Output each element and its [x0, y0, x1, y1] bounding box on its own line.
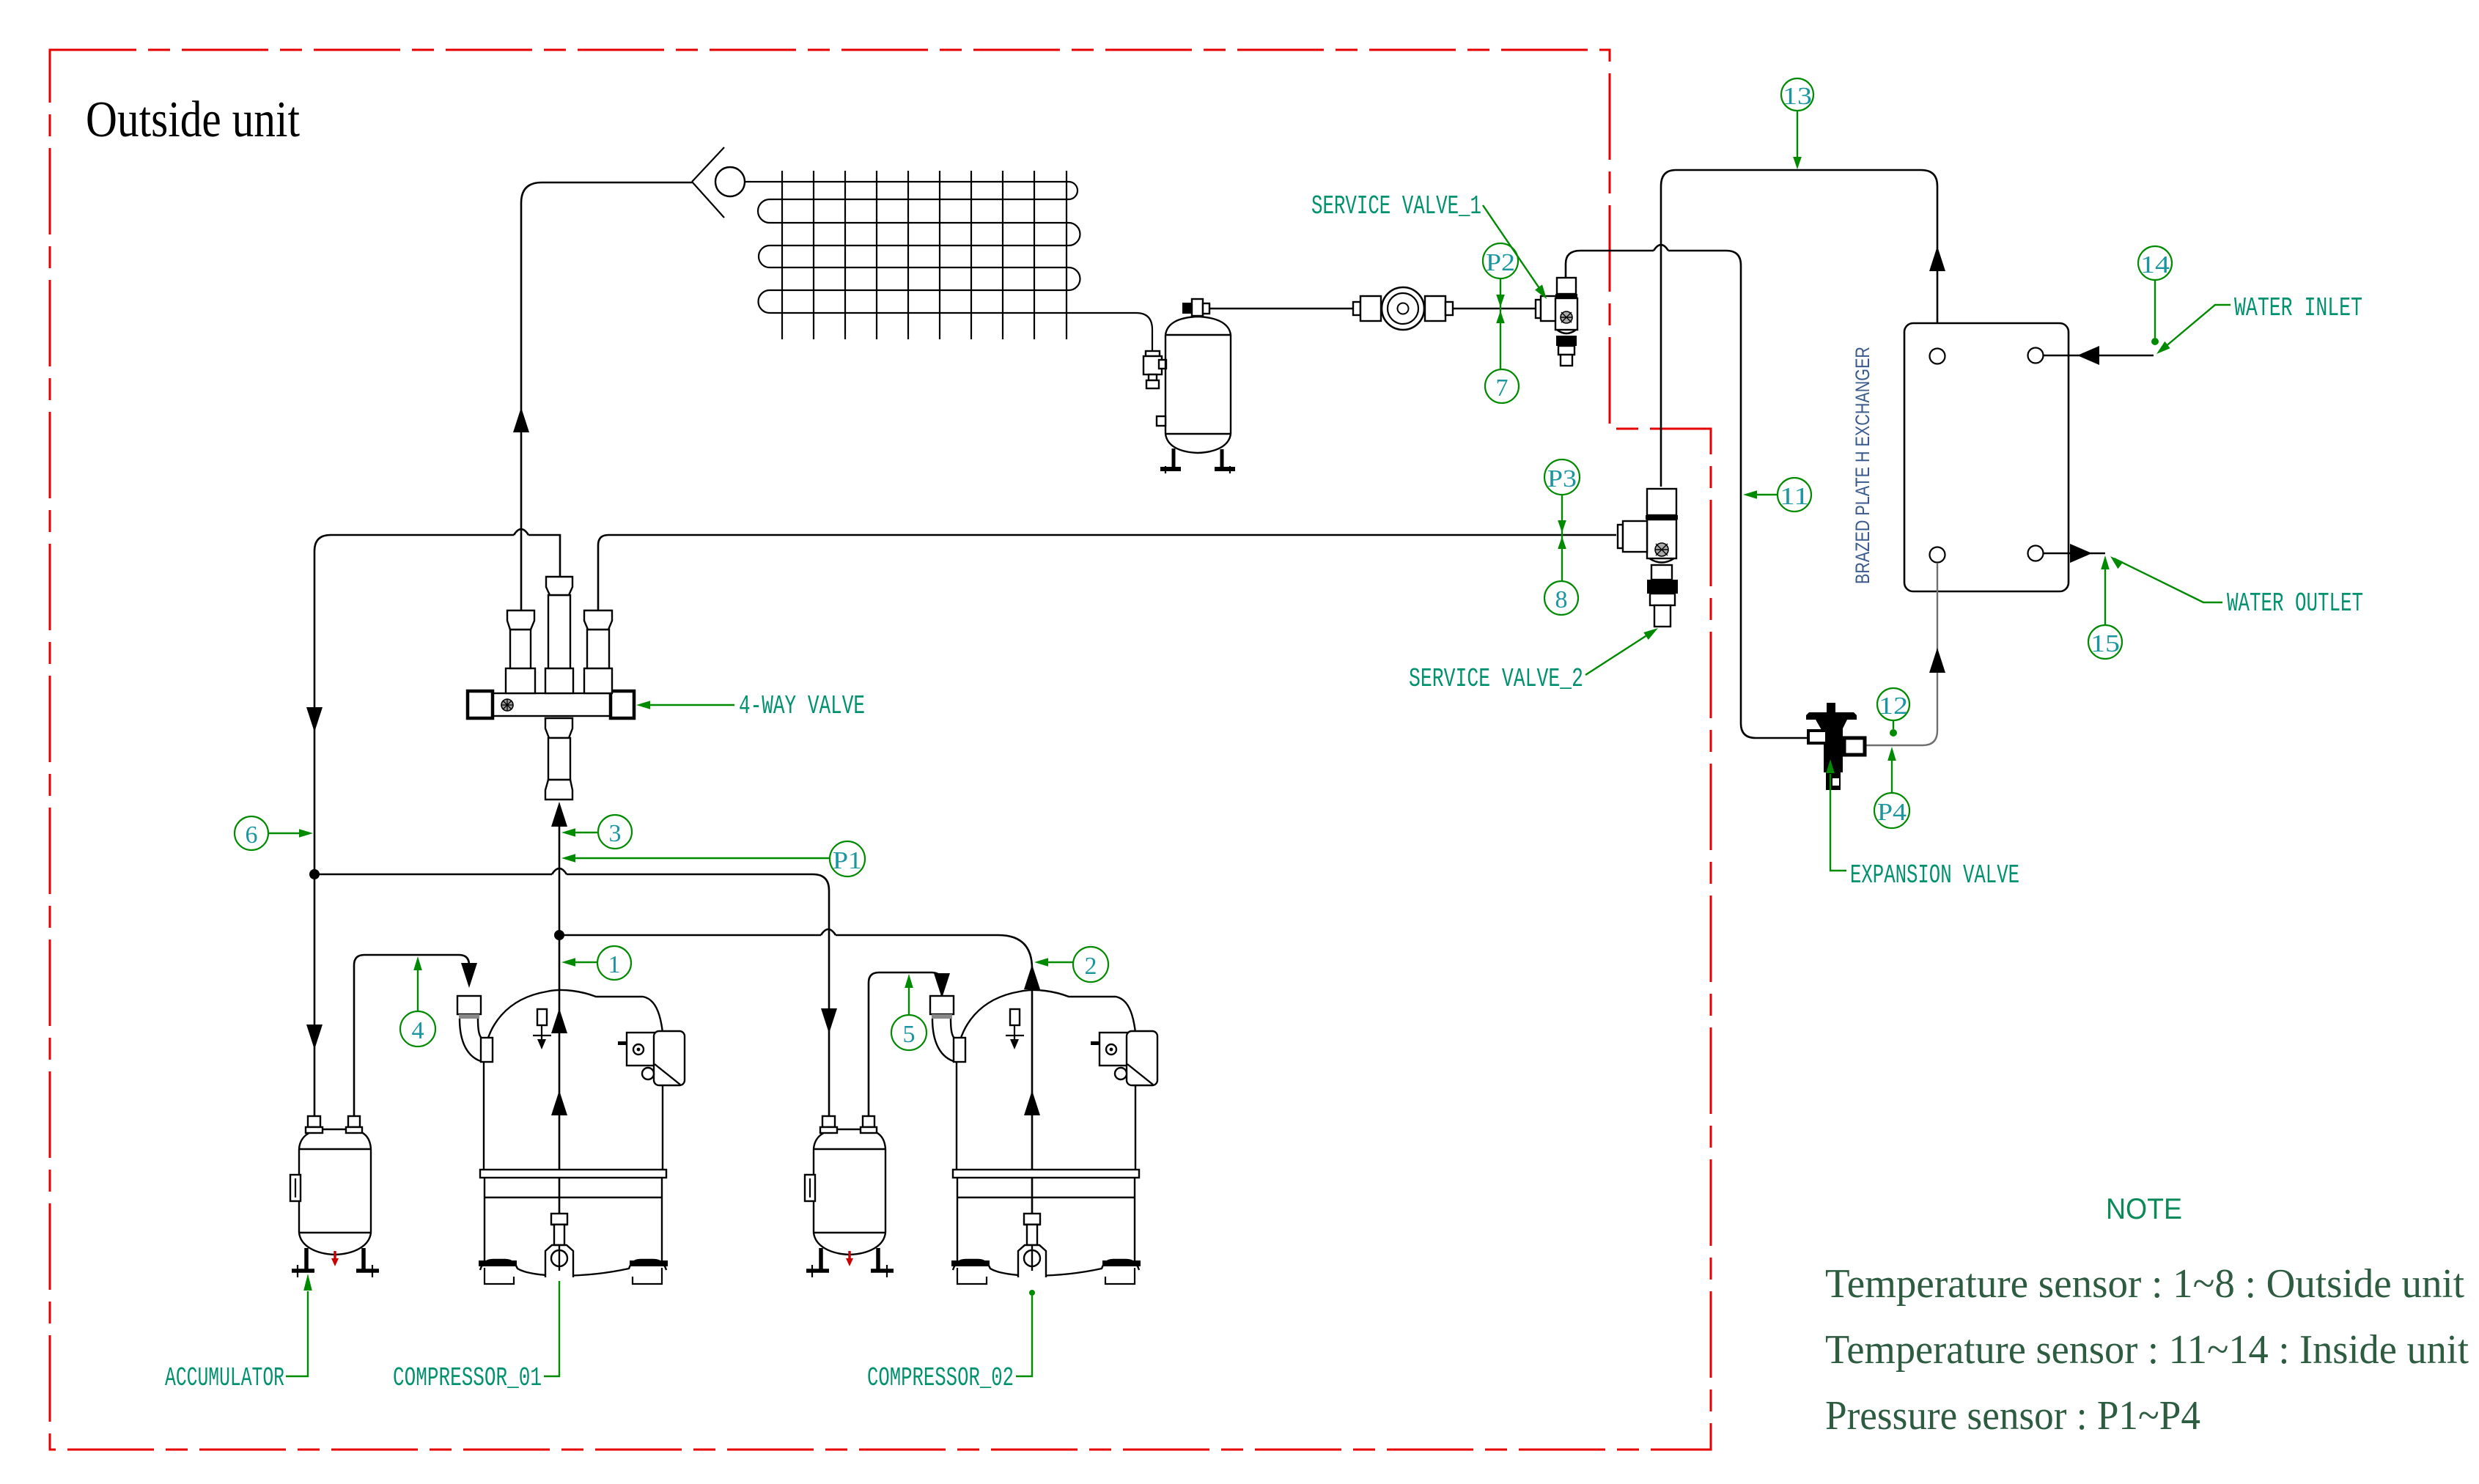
- arrow up on compressor2 discharge 2: [1024, 1090, 1040, 1115]
- node 3 sensor: [561, 815, 632, 849]
- BPHE port top-right: [2028, 348, 2044, 363]
- label 4-WAY VALVE: [636, 691, 865, 721]
- red dashed boundary of outside unit: [50, 50, 1711, 1450]
- condenser coil serpentine tube: [745, 182, 1152, 351]
- arrow up into 4-way valve bottom port: [551, 802, 567, 827]
- water outlet arrow: [2070, 544, 2092, 563]
- arrow up on compressor1 discharge 2: [551, 1090, 567, 1115]
- node 8 sensor: [1544, 581, 1578, 615]
- svg-text:Temperature sensor : 11~14 : I: Temperature sensor : 11~14 : Inside unit: [1825, 1327, 2469, 1373]
- svg-text:P1: P1: [833, 847, 862, 874]
- svg-text:1: 1: [608, 951, 621, 978]
- service valve 2: [1618, 489, 1678, 627]
- node 4 sensor: [400, 956, 435, 1046]
- svg-text:6: 6: [246, 822, 258, 849]
- arrow down on accumulator2 riser: [821, 1008, 837, 1033]
- svg-text:SERVICE VALVE_1: SERVICE VALVE_1: [1311, 191, 1481, 221]
- wire hop over line 13: [1654, 245, 1668, 251]
- label WATER INLET: [2156, 293, 2362, 354]
- wire hop over accumulator2 riser: [821, 929, 836, 935]
- svg-text:15: 15: [2091, 630, 2120, 657]
- wire: line 13 from service valve 2 to heat exchanger: [1661, 170, 1937, 487]
- arrow down into compressor2 elbow: [934, 973, 950, 998]
- svg-text:WATER OUTLET: WATER OUTLET: [2227, 588, 2363, 619]
- wire: discharge header from compressors to 4-way valve bottom port: [559, 827, 561, 1238]
- svg-text:Pressure sensor : P1~P4: Pressure sensor : P1~P4: [1825, 1393, 2200, 1439]
- label COMPRESSOR_01: [393, 1281, 559, 1393]
- svg-text:NOTE: NOTE: [2106, 1193, 2182, 1225]
- arrow up on compressor1 discharge: [551, 1008, 567, 1033]
- svg-text:12: 12: [1879, 693, 1908, 720]
- accumulator vessel 1 (ACCUMULATOR): [290, 1116, 379, 1277]
- node 14 sensor: [2138, 246, 2172, 345]
- node P2 sensor: [1483, 243, 1518, 369]
- wire: compressor2 discharge line: [559, 935, 1032, 1238]
- filter drier: [1353, 287, 1453, 330]
- svg-text:4-WAY VALVE: 4-WAY VALVE: [739, 691, 865, 721]
- svg-text:Temperature sensor : 1~8 : Out: Temperature sensor : 1~8 : Outside unit: [1825, 1261, 2464, 1307]
- compressor COMPRESSOR_01: [457, 990, 685, 1284]
- arrow up on line 13 vertical: [1929, 246, 1945, 271]
- svg-text:P3: P3: [1547, 465, 1577, 492]
- svg-text:BRAZED PLATE H EXCHANGER: BRAZED PLATE H EXCHANGER: [1852, 347, 1874, 584]
- service valve 1: [1536, 251, 1580, 366]
- wire: suction branch to accumulator 2: [314, 874, 829, 1116]
- node 5 sensor: [891, 974, 927, 1050]
- fan circle: [715, 167, 745, 196]
- node P4 sensor: [1874, 793, 1909, 828]
- BPHE port bottom-left: [1930, 547, 1945, 563]
- arrow up on discharge riser: [513, 407, 529, 432]
- node 12 sensor: [1877, 688, 1909, 792]
- fan blades: [692, 147, 724, 218]
- label ACCUMULATOR: [165, 1274, 312, 1393]
- label SERVICE VALVE_2: [1409, 628, 1658, 694]
- wire: line 11 from service valve 1 to expansion valve: [1580, 251, 1809, 738]
- wire hop over discharge riser: [514, 529, 528, 535]
- arrow down on suction drop 2: [306, 1025, 323, 1049]
- svg-text:ACCUMULATOR: ACCUMULATOR: [165, 1363, 284, 1393]
- receiver tank: [1157, 299, 1235, 473]
- arrow up on compressor2 discharge: [1024, 964, 1040, 989]
- svg-text:4: 4: [412, 1017, 424, 1044]
- wire: BPHE bottom port to expansion valve: [1865, 563, 1937, 745]
- water outlet pipe: [2044, 553, 2105, 555]
- expansion valve: [1806, 703, 1865, 790]
- svg-text:WATER INLET: WATER INLET: [2234, 293, 2362, 323]
- arrow up on BPHE bottom line: [1929, 648, 1945, 673]
- wire: accumulator2 to compressor2 suction: [869, 972, 942, 1116]
- svg-text:2: 2: [1085, 953, 1097, 980]
- arrow down into compressor1 elbow: [461, 963, 477, 988]
- node P1 sensor: [561, 841, 865, 876]
- node 6 sensor: [235, 816, 313, 850]
- wire: accumulator1 to compressor1 suction: [354, 955, 469, 1116]
- liquid line receiver to filter drier: [1209, 308, 1352, 310]
- node 13 sensor: [1781, 78, 1813, 169]
- node 1 sensor: [561, 946, 631, 980]
- BPHE port bottom-right: [2028, 546, 2044, 561]
- wire: suction from 4-way valve center port to accumulators: [314, 535, 560, 1116]
- junction dot suction branch: [309, 869, 320, 879]
- node 15 sensor: [2088, 555, 2122, 659]
- liquid line filter drier to service valve 1: [1454, 308, 1535, 310]
- label EXPANSION VALVE: [1826, 759, 2019, 890]
- svg-text:EXPANSION VALVE: EXPANSION VALVE: [1850, 860, 2019, 890]
- junction dot discharge header: [554, 930, 564, 940]
- svg-text:14: 14: [2140, 251, 2170, 278]
- label SERVICE VALVE_1: [1311, 191, 1547, 299]
- BPHE port top-left: [1930, 349, 1945, 364]
- svg-text:11: 11: [1780, 483, 1809, 510]
- svg-text:Outside unit: Outside unit: [86, 92, 300, 148]
- node 2 sensor: [1034, 947, 1108, 982]
- wire hop over discharge header: [552, 868, 567, 874]
- svg-text:P2: P2: [1486, 249, 1515, 276]
- svg-text:7: 7: [1496, 374, 1509, 402]
- node 11 sensor: [1743, 478, 1811, 512]
- svg-text:5: 5: [903, 1021, 916, 1048]
- node 7 sensor: [1485, 369, 1519, 403]
- arrow down on suction drop: [306, 707, 323, 732]
- brazed plate heat exchanger body: [1904, 323, 2069, 591]
- svg-text:8: 8: [1555, 586, 1568, 613]
- label WATER OUTLET: [2110, 556, 2363, 619]
- svg-text:COMPRESSOR_02: COMPRESSOR_02: [867, 1363, 1014, 1393]
- receiver inlet valve on downpipe: [1143, 351, 1166, 388]
- accumulator vessel 2: [805, 1116, 894, 1277]
- svg-text:3: 3: [609, 820, 622, 847]
- wire: suction pipe 4-way valve right port to service valve 2: [598, 535, 1616, 611]
- svg-text:SERVICE VALVE_2: SERVICE VALVE_2: [1409, 664, 1583, 694]
- svg-text:P4: P4: [1877, 799, 1907, 826]
- wire: discharge riser from 4-way valve left port to condenser: [521, 182, 692, 611]
- water inlet arrow: [2077, 346, 2099, 365]
- label COMPRESSOR_02: [867, 1290, 1035, 1393]
- 4-way valve: [468, 577, 634, 800]
- water inlet pipe: [2044, 355, 2154, 357]
- compressor COMPRESSOR_02: [930, 990, 1157, 1284]
- node P3 sensor: [1544, 459, 1580, 581]
- svg-text:13: 13: [1783, 83, 1812, 110]
- svg-text:COMPRESSOR_01: COMPRESSOR_01: [393, 1363, 542, 1393]
- condenser coil fins: [782, 171, 1067, 339]
